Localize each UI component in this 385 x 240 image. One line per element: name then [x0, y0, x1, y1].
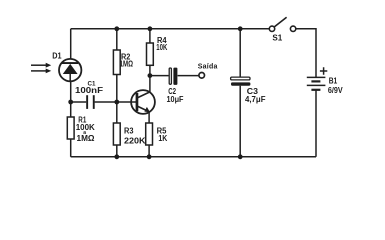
wire R1 top: [70, 102, 72, 117]
wire C3 top: [239, 29, 241, 77]
junction top R4: [148, 26, 153, 31]
wire top rail: [71, 28, 270, 30]
svg-text:R3: R3: [124, 126, 134, 135]
wire R4 top: [149, 29, 151, 43]
wire C2 left: [150, 75, 169, 77]
wire emitter vertical: [148, 112, 150, 123]
capacitor C3: [231, 77, 251, 86]
svg-text:1K: 1K: [158, 134, 167, 143]
wire D1 top: [70, 29, 72, 59]
wire R2 bottom: [116, 75, 118, 103]
svg-text:4,7μF: 4,7μF: [245, 95, 266, 104]
resistor R4: [147, 43, 154, 65]
wire R5 bottom: [148, 145, 150, 157]
wire R3 bottom: [116, 145, 118, 157]
light arrow 2 into D1: [31, 69, 51, 74]
junction bottom R3: [114, 154, 119, 159]
resistor R5: [146, 123, 153, 145]
output terminal Saida: [199, 73, 205, 79]
svg-text:1MΩ: 1MΩ: [77, 134, 96, 143]
svg-text:Saída: Saída: [198, 64, 218, 71]
svg-text:10μF: 10μF: [167, 95, 184, 104]
junction top C3: [238, 26, 243, 31]
svg-text:D1: D1: [52, 52, 62, 61]
capacitor C2: [169, 68, 177, 85]
svg-text:220K: 220K: [124, 136, 146, 145]
junction top R2: [114, 26, 119, 31]
battery B1: [307, 77, 326, 89]
light arrow 1 into D1: [31, 63, 51, 68]
wire collector vertical: [149, 76, 151, 93]
wire R4 bottom: [149, 65, 151, 75]
wire node A to C1: [71, 101, 87, 103]
capacitor C1: [86, 95, 95, 109]
photodiode D1: [59, 59, 81, 81]
svg-text:10K: 10K: [156, 43, 167, 52]
resistor R3: [113, 123, 120, 145]
svg-text:B1: B1: [329, 77, 338, 86]
wire C2 to Saida terminal: [178, 75, 199, 77]
junction node B (R2/R3/base): [114, 100, 119, 105]
svg-text:S1: S1: [272, 34, 282, 43]
junction bottom R5: [147, 154, 152, 159]
wire S1 to battery: [296, 29, 316, 77]
svg-text:6/9V: 6/9V: [328, 86, 343, 95]
junction bottom C3: [238, 154, 243, 159]
switch S1: [269, 17, 296, 31]
wire bottom rail: [71, 156, 316, 158]
svg-text:1MΩ: 1MΩ: [120, 60, 134, 69]
wire R1 bottom: [70, 139, 72, 157]
wire R2 top: [116, 29, 118, 50]
wire battery bottom: [315, 90, 317, 157]
battery plus sign: [320, 67, 327, 74]
wire C1 to base node B: [95, 101, 137, 103]
junction node C (R4/C2/collector): [148, 73, 153, 78]
wire R3 top: [116, 102, 118, 123]
resistor R1: [67, 117, 74, 139]
wire D1 bottom to node A: [70, 81, 72, 102]
junction node A (D1/C1/R1): [68, 100, 73, 105]
svg-text:100nF: 100nF: [75, 86, 103, 95]
transistor Q1: [131, 90, 155, 114]
resistor R2: [113, 50, 120, 75]
wire C3 bottom: [239, 86, 241, 157]
